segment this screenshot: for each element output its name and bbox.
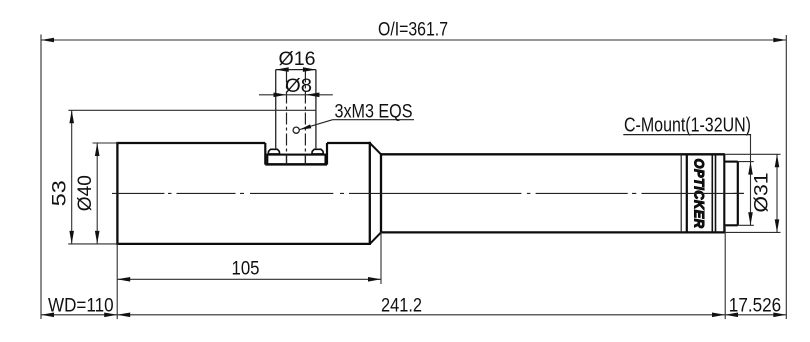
svg-text:53: 53 (50, 180, 71, 206)
dimension diam 31 (776, 154, 778, 232)
svg-text:WD=110: WD=110 (48, 296, 114, 317)
port recess (264, 143, 266, 165)
svg-text:Ø40: Ø40 (75, 175, 96, 211)
C-mount leader + thread dimension line (750, 135, 752, 226)
port tube walls (diam 16) (275, 70, 277, 149)
svg-text:Ø16: Ø16 (279, 49, 316, 70)
extension for 241.2/17.526 (thread start) (724, 225, 726, 319)
dimension diam8 (259, 94, 333, 96)
bolt head left (268, 149, 279, 154)
extension line left (O/I + WD, x=41) (40, 35, 42, 320)
dimension diam40 (96, 143, 98, 244)
svg-text:C-Mount(1-32UN): C-Mount(1-32UN) (624, 114, 751, 136)
hole wall solid segments through flange plate (286, 155, 288, 165)
extension for 105/WD/241.2 (body left, below) (116, 244, 118, 319)
dimension 53 (71, 110, 73, 244)
thin cylinder (diam 31) (381, 153, 725, 155)
extension line for 53 (top) (68, 109, 316, 111)
diam40 extension top (93, 142, 119, 144)
svg-text:O/I=361.7: O/I=361.7 (378, 20, 448, 41)
extension line right (O/I + 17.526, x=786.3) (785, 35, 787, 319)
svg-text:3xM3 EQS: 3xM3 EQS (335, 101, 413, 122)
shared extension bottom (68, 243, 118, 245)
dimension diam16 line (at tube top) (276, 69, 316, 71)
svg-text:241.2: 241.2 (381, 296, 422, 317)
dimension WD=110 (41, 314, 117, 316)
svg-text:17.526: 17.526 (729, 296, 781, 317)
bolt head right (312, 149, 323, 154)
thread dim extension overshoot (738, 161, 754, 163)
dimension O/I=361.7 line (41, 39, 786, 41)
centerline nub at right end (733, 192, 744, 194)
svg-text:Ø31: Ø31 (752, 173, 773, 213)
port flange plate (267, 155, 325, 165)
diam31 extension lines (725, 153, 781, 155)
3xM3 screw hole circle (293, 127, 299, 133)
dimension 105 (117, 278, 381, 280)
hidden hole lines (diam 8) (286, 71, 288, 165)
dimension 17.526 (725, 314, 786, 316)
C-mount thread section (724, 161, 738, 163)
knurled ring grooves (680, 154, 682, 232)
cone transition (370, 143, 381, 154)
extension for 105 right (cone base) (380, 232, 382, 284)
3xM3 leader (300, 120, 333, 130)
main centerline (112, 192, 744, 194)
svg-text:Ø8: Ø8 (285, 76, 312, 97)
dimension 241.2 (117, 314, 725, 316)
svg-text:105: 105 (232, 259, 260, 280)
main body large cylinder outline (116, 143, 118, 244)
